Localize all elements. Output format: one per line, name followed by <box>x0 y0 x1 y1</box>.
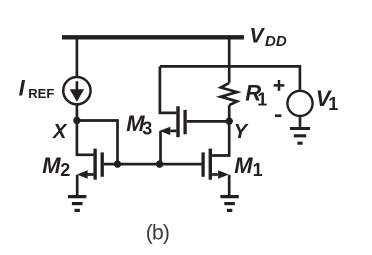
svg-text:Y: Y <box>234 121 249 143</box>
resistor R1 <box>221 83 237 105</box>
svg-text:REF: REF <box>28 86 54 101</box>
V1 plus sign <box>274 80 285 91</box>
wire node X down to M2 drain <box>77 121 94 155</box>
transistor M2 gate stub <box>104 163 118 166</box>
transistor M3 gate stub to node Y <box>187 120 229 123</box>
svg-text:2: 2 <box>60 160 70 180</box>
svg-text:M: M <box>234 153 253 178</box>
current source IREF arrow <box>70 81 84 102</box>
transistor M2 channel bar <box>93 149 96 180</box>
wire M3 source to gate bus <box>159 131 162 164</box>
wire IREF to node X <box>76 106 79 121</box>
transistor M1 gate bar <box>201 152 204 176</box>
current source IREF circle <box>63 77 90 104</box>
junction dot gate bus / X <box>114 160 121 167</box>
transistor M1 channel bar <box>209 149 212 180</box>
wire VDD rail to R1 <box>228 39 231 83</box>
transistor M1 source arrow <box>212 170 229 178</box>
svg-text:(b): (b) <box>146 221 169 244</box>
transistor M3 source arrow <box>160 127 177 135</box>
svg-text:V: V <box>250 24 266 47</box>
ground under M2 <box>68 197 86 211</box>
label V1 <box>316 86 339 114</box>
transistor M3 channel bar <box>176 106 179 137</box>
ground under M1 <box>220 197 238 211</box>
svg-text:X: X <box>52 121 68 143</box>
wire V1 to ground <box>299 117 302 127</box>
wire node X to M2/M1 gate bus <box>77 121 118 165</box>
junction dot gate bus / M3 source <box>156 160 163 167</box>
ground under V1 <box>290 129 310 144</box>
svg-text:DD: DD <box>265 33 287 50</box>
wire VDD rail to IREF source <box>76 39 79 76</box>
label M3 <box>126 111 152 139</box>
label IREF <box>19 75 55 101</box>
label R1 <box>245 80 267 109</box>
wire M2 source to ground <box>76 175 79 195</box>
wire node Y to M1 drain <box>212 121 229 155</box>
node Y junction dot <box>226 118 233 125</box>
source V1 circle <box>287 91 312 116</box>
VDD rail <box>62 35 244 39</box>
wire M3 drain to V1 top <box>160 66 300 89</box>
svg-text:1: 1 <box>328 94 338 114</box>
transistor M2 gate bar <box>101 152 104 176</box>
svg-text:1: 1 <box>257 89 267 109</box>
transistor M2 source arrow <box>77 170 93 178</box>
wire R1 to node Y <box>228 105 231 121</box>
label M2 <box>42 153 70 180</box>
V1 minus sign <box>275 114 282 117</box>
svg-text:1: 1 <box>253 160 263 180</box>
label M1 <box>234 153 262 180</box>
wire M1 source to ground <box>228 175 231 195</box>
wire gate bus <box>118 163 202 166</box>
svg-text:M: M <box>42 153 61 178</box>
svg-text:I: I <box>19 75 26 100</box>
node X junction dot <box>73 117 80 124</box>
svg-text:3: 3 <box>142 119 152 139</box>
transistor M3 gate bar <box>183 110 186 134</box>
label VDD <box>250 24 287 50</box>
transistor M3 drain stub <box>160 66 176 113</box>
